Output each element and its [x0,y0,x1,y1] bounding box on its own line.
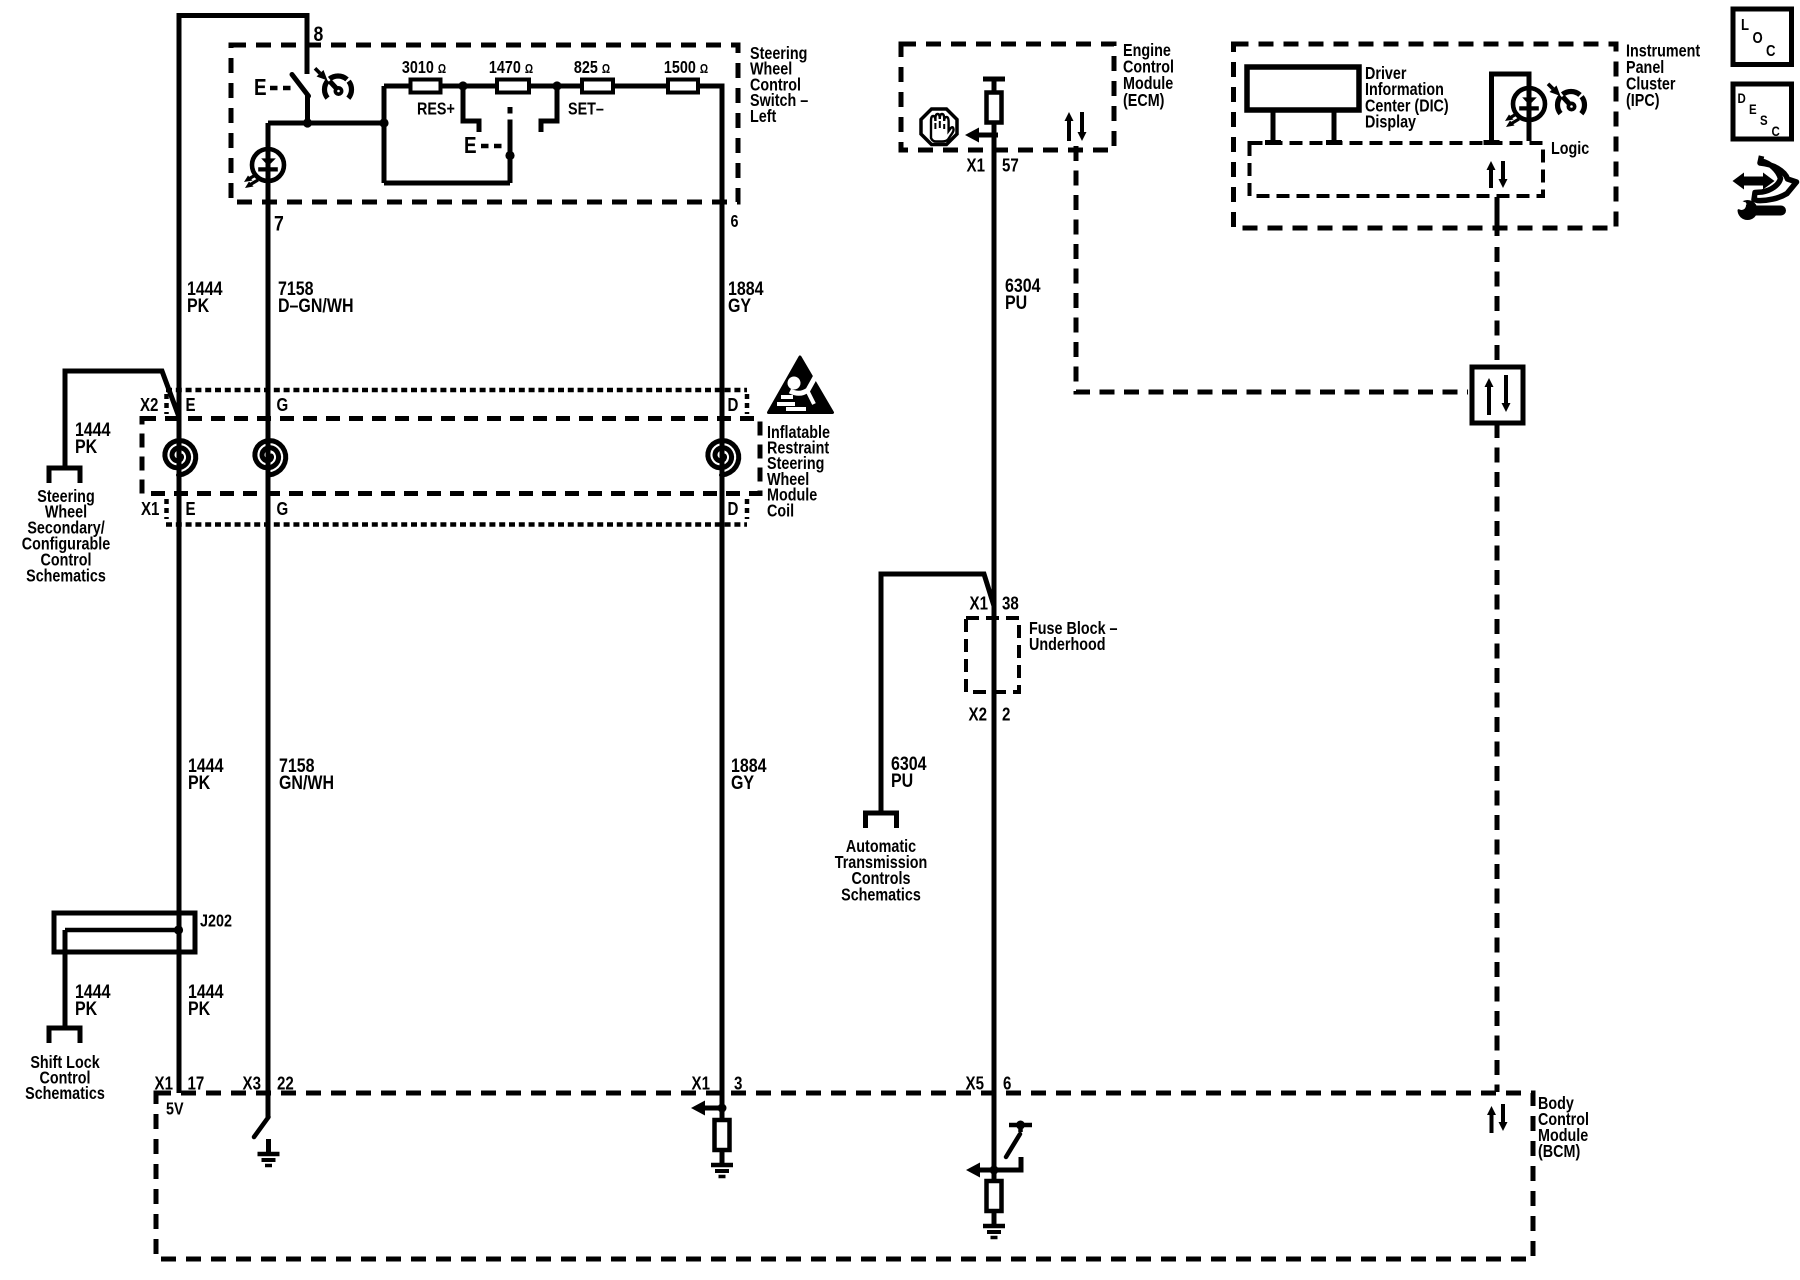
svg-text:PK: PK [188,998,210,1020]
serial data gateway box with arrows [1472,367,1523,423]
BCM X5-6 switch contact tick [1009,1123,1032,1128]
wire: S1 hinge to junction node A [305,94,310,123]
svg-text:X1: X1 [970,593,988,614]
resistor R6 (BCM pull-down) [715,1120,730,1150]
svg-text:3: 3 [734,1073,742,1094]
svg-text:D: D [728,499,739,520]
svg-text:D: D [1738,90,1746,106]
wire branch 6304 PU to automatic transmission schematics [881,574,994,813]
svg-text:GN/WH: GN/WH [279,772,334,794]
splice J202 internal tie [65,928,178,933]
svg-text:22: 22 [277,1073,294,1094]
dashed serial data wire: gateway box down to BCM [1495,423,1500,1092]
wire branch to steering wheel secondary schematics [65,371,179,468]
steering wheel control switch - left: module dashed box [231,45,738,202]
svg-text:PK: PK [75,998,97,1020]
svg-text:X2: X2 [140,395,158,416]
inflatable restraint steering wheel module coil: dashed box [142,419,760,494]
DIC display legs [1271,110,1276,141]
off-page reference bracket (shift lock) [49,1028,80,1043]
dashed serial data wire: IPC logic down to gateway box [1495,197,1500,236]
svg-text:PU: PU [891,770,913,792]
svg-text:O: O [1753,30,1763,47]
node B junction dot (bus meets resistor rail) [379,118,388,127]
node C junction dot (after R1) [458,81,467,90]
ground G2 (BCM internal, X1-3) [720,1150,725,1165]
ground G1 (BCM internal, X3-22) [266,1139,271,1154]
svg-text:L: L [1741,17,1749,34]
RES+ switch contact hook [463,86,479,132]
switch S2 (set/resume) blade and contact tick [508,107,513,114]
coil spiral L3 (1884 line) [708,441,739,475]
svg-text:(IPC): (IPC) [1626,92,1659,111]
IPC serial data arrows (up/down) [1489,168,1493,188]
svg-text:X1: X1 [155,1073,173,1094]
instrument panel cluster (IPC) dashed box [1234,44,1617,228]
node D junction dot (after R2) [552,81,561,90]
body control module (BCM) dashed box [156,1093,1533,1259]
svg-text:Schematics: Schematics [25,1085,105,1104]
driver information center (DIC) display block [1247,67,1359,110]
wire 7158 D-GN/WH then GN/WH: pin 7 down through coil to BCM X3-22 [266,123,271,1117]
cruise indicator LED (IPC) [1513,88,1545,120]
interactive wiring icon (double arrow, pointer, wrench) [1743,177,1764,186]
SIR caution triangle with seated occupant [769,357,833,413]
stop/hand icon (cruise disable) octagon [921,109,957,145]
svg-text:X3: X3 [243,1073,261,1094]
svg-text:J202: J202 [200,912,232,931]
coil spiral L1 (1444 PK line) [165,441,196,475]
svg-text:Left: Left [750,108,777,127]
switch S1 (cruise on/off) blade [292,75,309,97]
ECM pull-up supply tick [983,77,1005,82]
svg-text:17: 17 [188,1073,205,1094]
gauge icon (IPC) [1558,92,1585,119]
left rail vertical [382,86,387,183]
svg-text:RES+: RES+ [417,100,455,119]
svg-text:E: E [464,133,477,158]
node E junction dot on S2 blade [505,151,514,160]
resistor R1 3010 ohm [411,80,441,93]
svg-text:D–GN/WH: D–GN/WH [278,295,353,317]
svg-text:X1: X1 [141,499,159,520]
wire: internal bus at y=123 (LED junction to resistor rail) [268,121,384,126]
IPC lamp feed wire (inverted U) [1492,74,1530,141]
svg-text:G: G [277,499,289,520]
X5-6 switch bracket wire [994,1157,1021,1170]
svg-text:X1: X1 [967,155,985,176]
splice pack J202 box [54,913,195,952]
wire 1444 PK: from BCM X1-17 up left side, across top, down into switch pin 8 [179,16,307,1094]
svg-text:E: E [254,75,267,100]
svg-text:7: 7 [274,212,284,236]
svg-text:E: E [186,395,196,416]
svg-text:G: G [277,395,289,416]
resistor R7 (BCM pull-down) [987,1181,1002,1211]
svg-text:E: E [186,499,196,520]
wire branch to shift lock schematics [63,930,68,1028]
node dot X5-6 [990,1166,999,1175]
svg-text:PK: PK [75,436,97,458]
svg-text:38: 38 [1002,593,1019,614]
svg-text:D: D [728,395,739,416]
resistor R4 1500 ohm [668,80,698,93]
bottom return wire of switch pack [384,181,510,186]
node dot X1-3 [718,1104,727,1113]
connector row X2: dotted lines and end ticks [166,388,747,393]
cruise indicator gauge icon [325,76,352,103]
coil spiral L2 (7158 line) [255,441,286,475]
resistor R3 825 ohm [582,80,613,93]
ECM serial data arrows (up/down) [1067,119,1071,141]
svg-text:6: 6 [731,213,739,232]
svg-text:Schematics: Schematics [26,567,106,586]
resistor rail + chain wire and right leg (pin 6) [384,86,722,1093]
fuse block - underhood dashed box [966,618,1019,692]
resistor R5 (ECM internal pull-up) [987,93,1002,123]
svg-text:C: C [1772,123,1780,139]
BCM X1-3 sense arrow [704,1106,722,1111]
DESC reference icon box [1733,84,1792,139]
BCM X3-22 internal switch blade [254,1117,269,1137]
svg-text:Display: Display [1365,113,1416,132]
BCM X5-6 switch blade [1006,1134,1020,1157]
engine control module (ECM) dashed box [901,44,1114,150]
svg-text:X2: X2 [969,704,987,725]
connector row X1: dotted lines and end ticks [166,522,747,527]
wire 6304 PU: ECM X1-57 down through fuse block to BCM X5-6 [992,122,997,1170]
svg-text:SET–: SET– [568,100,604,119]
backlight LED (steering wheel switch illumination) [252,149,284,181]
svg-text:5V: 5V [166,1100,184,1119]
svg-text:(BCM): (BCM) [1538,1143,1580,1162]
svg-text:Schematics: Schematics [841,886,921,905]
svg-text:S: S [1760,112,1768,128]
LOC reference icon box [1733,9,1792,65]
svg-text:GY: GY [728,295,751,317]
BCM X5-6 sense arrow [979,1168,994,1173]
svg-text:6: 6 [1003,1073,1011,1094]
svg-text:Logic: Logic [1551,140,1589,159]
SET- switch contact hook [541,86,557,132]
svg-text:Coil: Coil [767,502,794,521]
svg-text:PK: PK [188,772,210,794]
BCM serial data arrows (up/down) [1490,1113,1494,1133]
svg-text:GY: GY [731,772,754,794]
svg-text:2: 2 [1002,704,1010,725]
svg-text:X5: X5 [966,1073,984,1094]
svg-text:C: C [1766,43,1776,60]
resistor R2 1470 ohm [497,80,529,93]
off-page reference bracket (automatic transmission) [866,813,897,828]
dashed serial data wire: ECM to gateway box [1076,146,1468,392]
ground G3 (BCM internal, X5-6) [992,1211,997,1226]
svg-text:PK: PK [187,295,209,317]
IPC logic dashed box [1250,143,1544,196]
svg-text:Underhood: Underhood [1029,636,1106,655]
svg-text:8: 8 [314,22,324,46]
svg-text:E: E [1749,101,1757,117]
wire X1-3 to resistor [720,1093,725,1120]
svg-text:(ECM): (ECM) [1123,92,1164,111]
off-page reference bracket (steering wheel secondary) [49,468,80,483]
node dot on contact [1016,1121,1025,1130]
wire X5-6 to resistor [992,1170,997,1181]
svg-text:PU: PU [1005,292,1027,314]
node A junction dot [303,118,312,127]
ECM sense arrow (to stop icon) [978,133,998,138]
svg-text:X1: X1 [692,1073,710,1094]
X5-6 switch stub [1018,1125,1023,1132]
node J202 junction dot [174,925,183,934]
svg-text:57: 57 [1002,155,1019,176]
